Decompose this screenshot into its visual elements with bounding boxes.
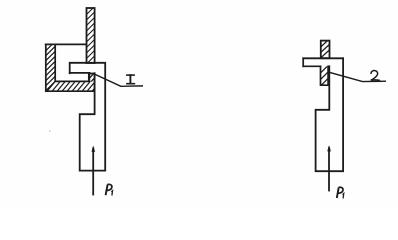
- right figure: pin (hatched) outline: [321, 41, 330, 59]
- left figure: leader line for label 1: [96, 75, 143, 87]
- right figure: rod outline: [316, 58, 344, 171]
- right figure: bar left end: [302, 58, 304, 66]
- right figure: force arrow P1 (shaft): [328, 148, 330, 191]
- left figure: force arrow P1 (head): [92, 146, 95, 151]
- right figure: lip block (hatched) outline: [321, 66, 329, 85]
- left figure: latch piece 1 (T-head and rod) outline: [70, 63, 106, 171]
- left figure: bracket lip left edge (thick): [88, 73, 90, 81]
- right figure: bar top surface line: [303, 57, 343, 59]
- left figure: upper rod (hatched) outline: [87, 8, 95, 63]
- right figure: lip block hatching: [319, 63, 331, 88]
- left figure: bracket left wall hatching: [45, 40, 57, 92]
- left figure: force arrow P1 (shaft): [92, 149, 94, 195]
- left figure: bracket top surface line: [46, 43, 87, 45]
- right figure: leader line for label 2: [330, 73, 385, 82]
- left figure: label P1: [106, 184, 113, 195]
- left figure: label 1 (serif I shape): [127, 75, 134, 84]
- left figure: latch T-head bottom edge: [70, 72, 90, 74]
- right figure: force arrow P1 (head): [328, 146, 331, 151]
- left figure: C-bracket section outline (left wall, bottom wall, lip): [46, 44, 95, 91]
- right figure: bar bottom edge: [303, 65, 320, 67]
- scan speck: [49, 130, 51, 132]
- left figure: upper rod hatching: [86, 6, 96, 66]
- left figure: bracket lip hatching: [87, 72, 99, 85]
- right figure: pin hatching: [320, 37, 332, 59]
- right figure: label 2: [371, 71, 379, 81]
- left figure: bracket bottom wall hatching: [46, 81, 101, 93]
- right figure: label P1: [337, 187, 344, 198]
